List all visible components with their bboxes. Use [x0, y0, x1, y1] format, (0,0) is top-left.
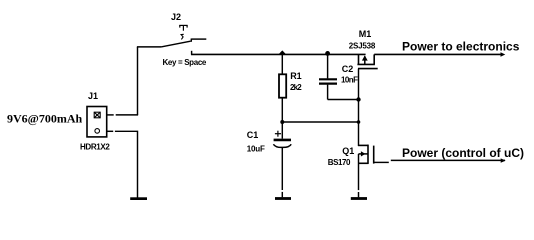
- svg-text:2k2: 2k2: [290, 83, 302, 92]
- transistor M1 gate lead down to node: [358, 69, 360, 146]
- ground GND3: [351, 197, 367, 200]
- capacitor C2 top lead: [327, 54, 329, 78]
- switch J2 right contact tick: [190, 39, 192, 42]
- ground GND2: [275, 197, 291, 200]
- transistor Q1 channel bar: [367, 145, 369, 164]
- svg-text:10nF: 10nF: [341, 75, 358, 84]
- connector J1 body: [87, 107, 107, 137]
- svg-text:9V6@700mAh: 9V6@700mAh: [7, 112, 82, 126]
- switch J2 spring squiggle: [181, 34, 184, 39]
- switch J2 actuator T bar: [179, 25, 187, 31]
- wire: J1 pin1 to vertical: [116, 114, 138, 116]
- transistor M1 channel bar: [357, 63, 375, 65]
- svg-text:10uF: 10uF: [247, 144, 265, 153]
- svg-text:R1: R1: [290, 71, 302, 81]
- switch J2 left wire: [137, 46, 161, 48]
- switch J2 right stub: [191, 38, 206, 40]
- svg-text:C1: C1: [247, 130, 259, 140]
- node: junction dot at R1 bottom: [280, 120, 284, 124]
- resistor R1 bottom lead: [281, 98, 283, 122]
- svg-text:Q1: Q1: [342, 146, 354, 156]
- J1 pin2 circle: [95, 129, 100, 134]
- svg-text:C2: C2: [342, 64, 354, 74]
- svg-text:HDR1X2: HDR1X2: [80, 142, 110, 151]
- wire: R1 bottom / C1 top horizontal to gate vertical: [282, 121, 358, 123]
- wire: power to electronics: [374, 53, 503, 55]
- capacitor C2 plates: [319, 78, 337, 80]
- resistor R1 top lead: [281, 54, 283, 74]
- wire: C2 bottom to gate node: [328, 99, 359, 101]
- transistor Q1 bulk stub with left arrow: [359, 153, 369, 155]
- wire: Q1 source to ground: [358, 163, 360, 190]
- node: R1 rail junction arrow: [278, 50, 286, 54]
- transistor Q1 gate stub: [374, 161, 389, 163]
- rail start tick: [191, 51, 193, 55]
- resistor R1 body: [279, 74, 286, 97]
- svg-text:Power (control of uC): Power (control of uC): [402, 146, 524, 160]
- svg-text:Key = Space: Key = Space: [163, 58, 207, 67]
- transistor Q1 bulk/source vertical: [358, 154, 360, 163]
- node: junction dot at gate vertical: [357, 120, 361, 124]
- svg-text:M1: M1: [359, 29, 372, 39]
- capacitor C1 top lead: [281, 122, 283, 139]
- wire: power control of uC: [391, 159, 505, 161]
- wire: main rail: [191, 53, 366, 55]
- node: control arrow: [501, 158, 506, 162]
- transistor Q1 gate bar: [373, 146, 375, 164]
- transistor Q1 drain bar: [358, 144, 368, 146]
- svg-text:Power to electronics: Power to electronics: [402, 39, 520, 53]
- transistor M1 bulk stub with up arrow: [364, 56, 366, 64]
- capacitor C1 top plate: [274, 139, 291, 142]
- transistor M1 gate bar: [358, 68, 378, 70]
- node: output arrow dot: [501, 52, 506, 57]
- switch J2 blade: [161, 41, 191, 47]
- capacitor C1 curved bottom plate: [273, 144, 291, 147]
- ground GND1: [130, 197, 147, 200]
- wire: switch left vertical from J2 down to J1 pin1: [137, 47, 139, 115]
- wire: J1 pin1 stub: [107, 114, 114, 116]
- svg-text:2SJ538: 2SJ538: [349, 41, 376, 50]
- wire: J1 pin2 stub: [107, 130, 113, 132]
- capacitor C2 bottom lead: [327, 85, 329, 100]
- J1 pin1 square with X: [94, 112, 100, 118]
- capacitor C1 bottom lead: [281, 147, 283, 190]
- svg-text:J1: J1: [88, 91, 98, 101]
- node: gate node junction dot: [356, 97, 360, 101]
- capacitor C1 plus sign: [275, 131, 281, 137]
- transistor M1 drain stub: [373, 54, 375, 64]
- svg-text:J2: J2: [171, 12, 181, 22]
- svg-text:BS170: BS170: [328, 158, 351, 167]
- transistor Q1 source bar: [358, 162, 368, 164]
- node: C2 rail junction dot: [325, 51, 330, 56]
- transistor M1 source stub: [358, 54, 360, 64]
- wire: J1 pin2 to ground vertical: [115, 131, 138, 197]
